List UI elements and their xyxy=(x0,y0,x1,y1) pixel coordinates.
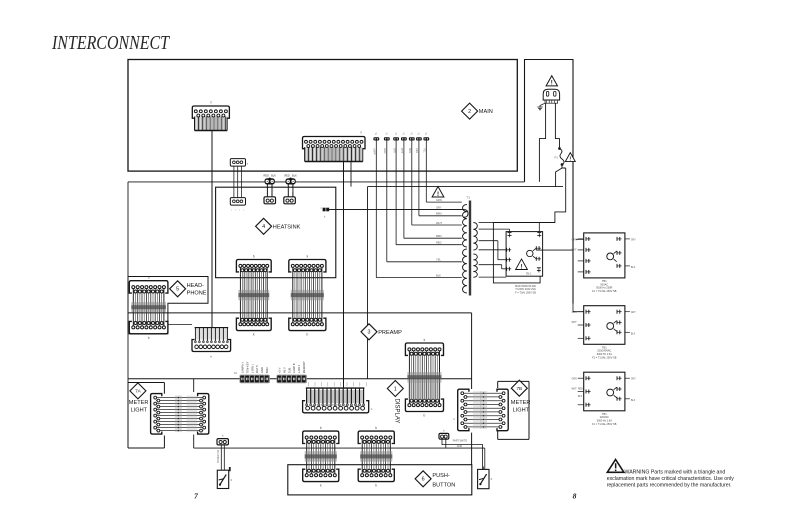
svg-text:MEMORY: MEMORY xyxy=(302,361,306,373)
svg-text:RGT 5: RGT 5 xyxy=(255,365,259,373)
svg-text:GRN: GRN xyxy=(572,379,577,381)
svg-text:BLK: BLK xyxy=(578,396,583,398)
svg-text:METER: METER xyxy=(129,400,149,406)
svg-text:SUB: SUB xyxy=(287,367,291,373)
svg-text:RED: RED xyxy=(284,174,289,177)
svg-text:F = T3AL 250V SB: F = T3AL 250V SB xyxy=(515,291,536,294)
svg-text:WHT: WHT xyxy=(400,148,403,154)
svg-text:BLK: BLK xyxy=(271,174,276,177)
svg-text:BLK: BLK xyxy=(631,267,636,269)
svg-text:WHT: WHT xyxy=(571,249,577,251)
svg-text:4: 4 xyxy=(262,224,265,230)
svg-text:LIGHT: LIGHT xyxy=(513,408,530,414)
svg-text:exclamation mark have critical: exclamation mark have critical character… xyxy=(607,476,735,482)
svg-text:H5 V: H5 V xyxy=(282,367,286,373)
svg-text:S: S xyxy=(231,478,233,482)
svg-text:RED: RED xyxy=(264,174,269,177)
svg-text:!: ! xyxy=(437,191,439,198)
svg-text:b: b xyxy=(375,484,377,488)
svg-text:RED: RED xyxy=(415,148,418,153)
svg-text:PUSH-: PUSH- xyxy=(432,473,450,479)
svg-text:RED: RED xyxy=(578,389,583,391)
svg-text:BRN: BRN xyxy=(436,234,442,238)
svg-text:RED: RED xyxy=(436,241,442,245)
svg-text:GRN: GRN xyxy=(572,312,577,314)
svg-text:5: 5 xyxy=(176,287,179,293)
svg-text:T1: T1 xyxy=(467,196,471,200)
svg-text:METER: METER xyxy=(511,400,531,406)
svg-text:+5 V: +5 V xyxy=(278,367,282,373)
svg-text:b: b xyxy=(375,426,377,430)
svg-text:2: 2 xyxy=(468,109,471,115)
svg-text:GRY: GRY xyxy=(631,239,636,241)
svg-text:LAMP(+): LAMP(+) xyxy=(241,362,245,373)
svg-text:F1 = T3.0AL 250V SB: F1 = T3.0AL 250V SB xyxy=(592,290,617,293)
svg-text:LIGHT: LIGHT xyxy=(131,408,148,414)
svg-text:1: 1 xyxy=(394,386,397,392)
svg-text:PART SW/TE: PART SW/TE xyxy=(453,440,468,443)
svg-text:!: ! xyxy=(551,81,553,87)
svg-text:TB1: TB1 xyxy=(602,279,607,283)
svg-text:F1: F1 xyxy=(555,156,559,160)
svg-text:HEAD-: HEAD- xyxy=(187,283,205,289)
svg-text:BRN: BRN xyxy=(265,367,269,373)
svg-text:GRY: GRY xyxy=(631,379,636,381)
svg-text:GND: GND xyxy=(260,367,264,373)
svg-text:GRY: GRY xyxy=(392,148,395,154)
svg-text:WARNING Parts marked with a tr: WARNING Parts marked with a triangle and xyxy=(625,469,726,475)
svg-text:GRN: GRN xyxy=(436,198,442,202)
svg-text:F1 = T1.6AL 250V SB: F1 = T1.6AL 250V SB xyxy=(592,357,617,360)
svg-text:BRN: BRN xyxy=(436,212,442,216)
svg-text:MAIN: MAIN xyxy=(479,109,493,115)
svg-text:PREAMP: PREAMP xyxy=(378,330,402,336)
svg-text:LAMP B: LAMP B xyxy=(292,363,296,373)
svg-text:BLK: BLK xyxy=(436,273,441,277)
svg-text:HEATSINK: HEATSINK xyxy=(273,224,301,230)
svg-text:WHT: WHT xyxy=(571,389,577,391)
svg-text:3: 3 xyxy=(368,330,371,336)
svg-text:!: ! xyxy=(521,264,523,270)
svg-text:b: b xyxy=(320,426,322,430)
svg-text:GRY: GRY xyxy=(631,312,636,314)
svg-text:BLK: BLK xyxy=(631,400,636,402)
svg-text:S: S xyxy=(491,477,493,481)
svg-text:b: b xyxy=(148,336,150,340)
svg-text:7: 7 xyxy=(194,492,198,501)
svg-text:TB1: TB1 xyxy=(602,412,607,416)
svg-text:b: b xyxy=(148,276,150,280)
svg-text:8: 8 xyxy=(573,492,577,501)
svg-text:F1 = T1.6AL 250V SB: F1 = T1.6AL 250V SB xyxy=(592,423,617,426)
svg-text:6: 6 xyxy=(422,477,425,483)
svg-text:POWER SW: POWER SW xyxy=(218,449,220,463)
svg-text:BLK: BLK xyxy=(631,333,636,335)
svg-text:replacement parts recommended: replacement parts recommended by the man… xyxy=(607,482,732,488)
svg-text:BRN: BRN xyxy=(408,148,411,153)
svg-text:DISPLAY: DISPLAY xyxy=(394,399,400,424)
svg-text:WHT: WHT xyxy=(436,221,442,225)
svg-text:7B: 7B xyxy=(516,386,522,391)
svg-text:GND: GND xyxy=(457,445,463,448)
svg-text:7A: 7A xyxy=(135,389,142,394)
svg-text:b: b xyxy=(424,414,426,418)
svg-text:INTERCONNECT: INTERCONNECT xyxy=(51,32,170,54)
svg-text:b: b xyxy=(253,255,255,259)
svg-text:YEL: YEL xyxy=(436,258,441,262)
svg-text:LAMP: LAMP xyxy=(373,148,376,155)
svg-text:b: b xyxy=(307,333,309,337)
svg-text:WHT: WHT xyxy=(571,322,577,324)
svg-text:PHONE: PHONE xyxy=(187,291,207,297)
svg-text:GRN: GRN xyxy=(383,148,386,154)
svg-text:GRY: GRY xyxy=(436,205,442,209)
svg-text:TEN-KEY: TEN-KEY xyxy=(245,361,249,373)
svg-text:TB-1: TB-1 xyxy=(526,272,532,276)
svg-text:BUTTON: BUTTON xyxy=(432,483,455,489)
svg-text:YEL: YEL xyxy=(423,148,426,153)
svg-text:TB1: TB1 xyxy=(602,345,607,349)
svg-text:L-DR 2: L-DR 2 xyxy=(297,364,301,373)
svg-text:!: ! xyxy=(569,156,571,162)
svg-text:L-DR( ): L-DR( ) xyxy=(250,364,254,373)
svg-text:BLK: BLK xyxy=(292,174,297,177)
